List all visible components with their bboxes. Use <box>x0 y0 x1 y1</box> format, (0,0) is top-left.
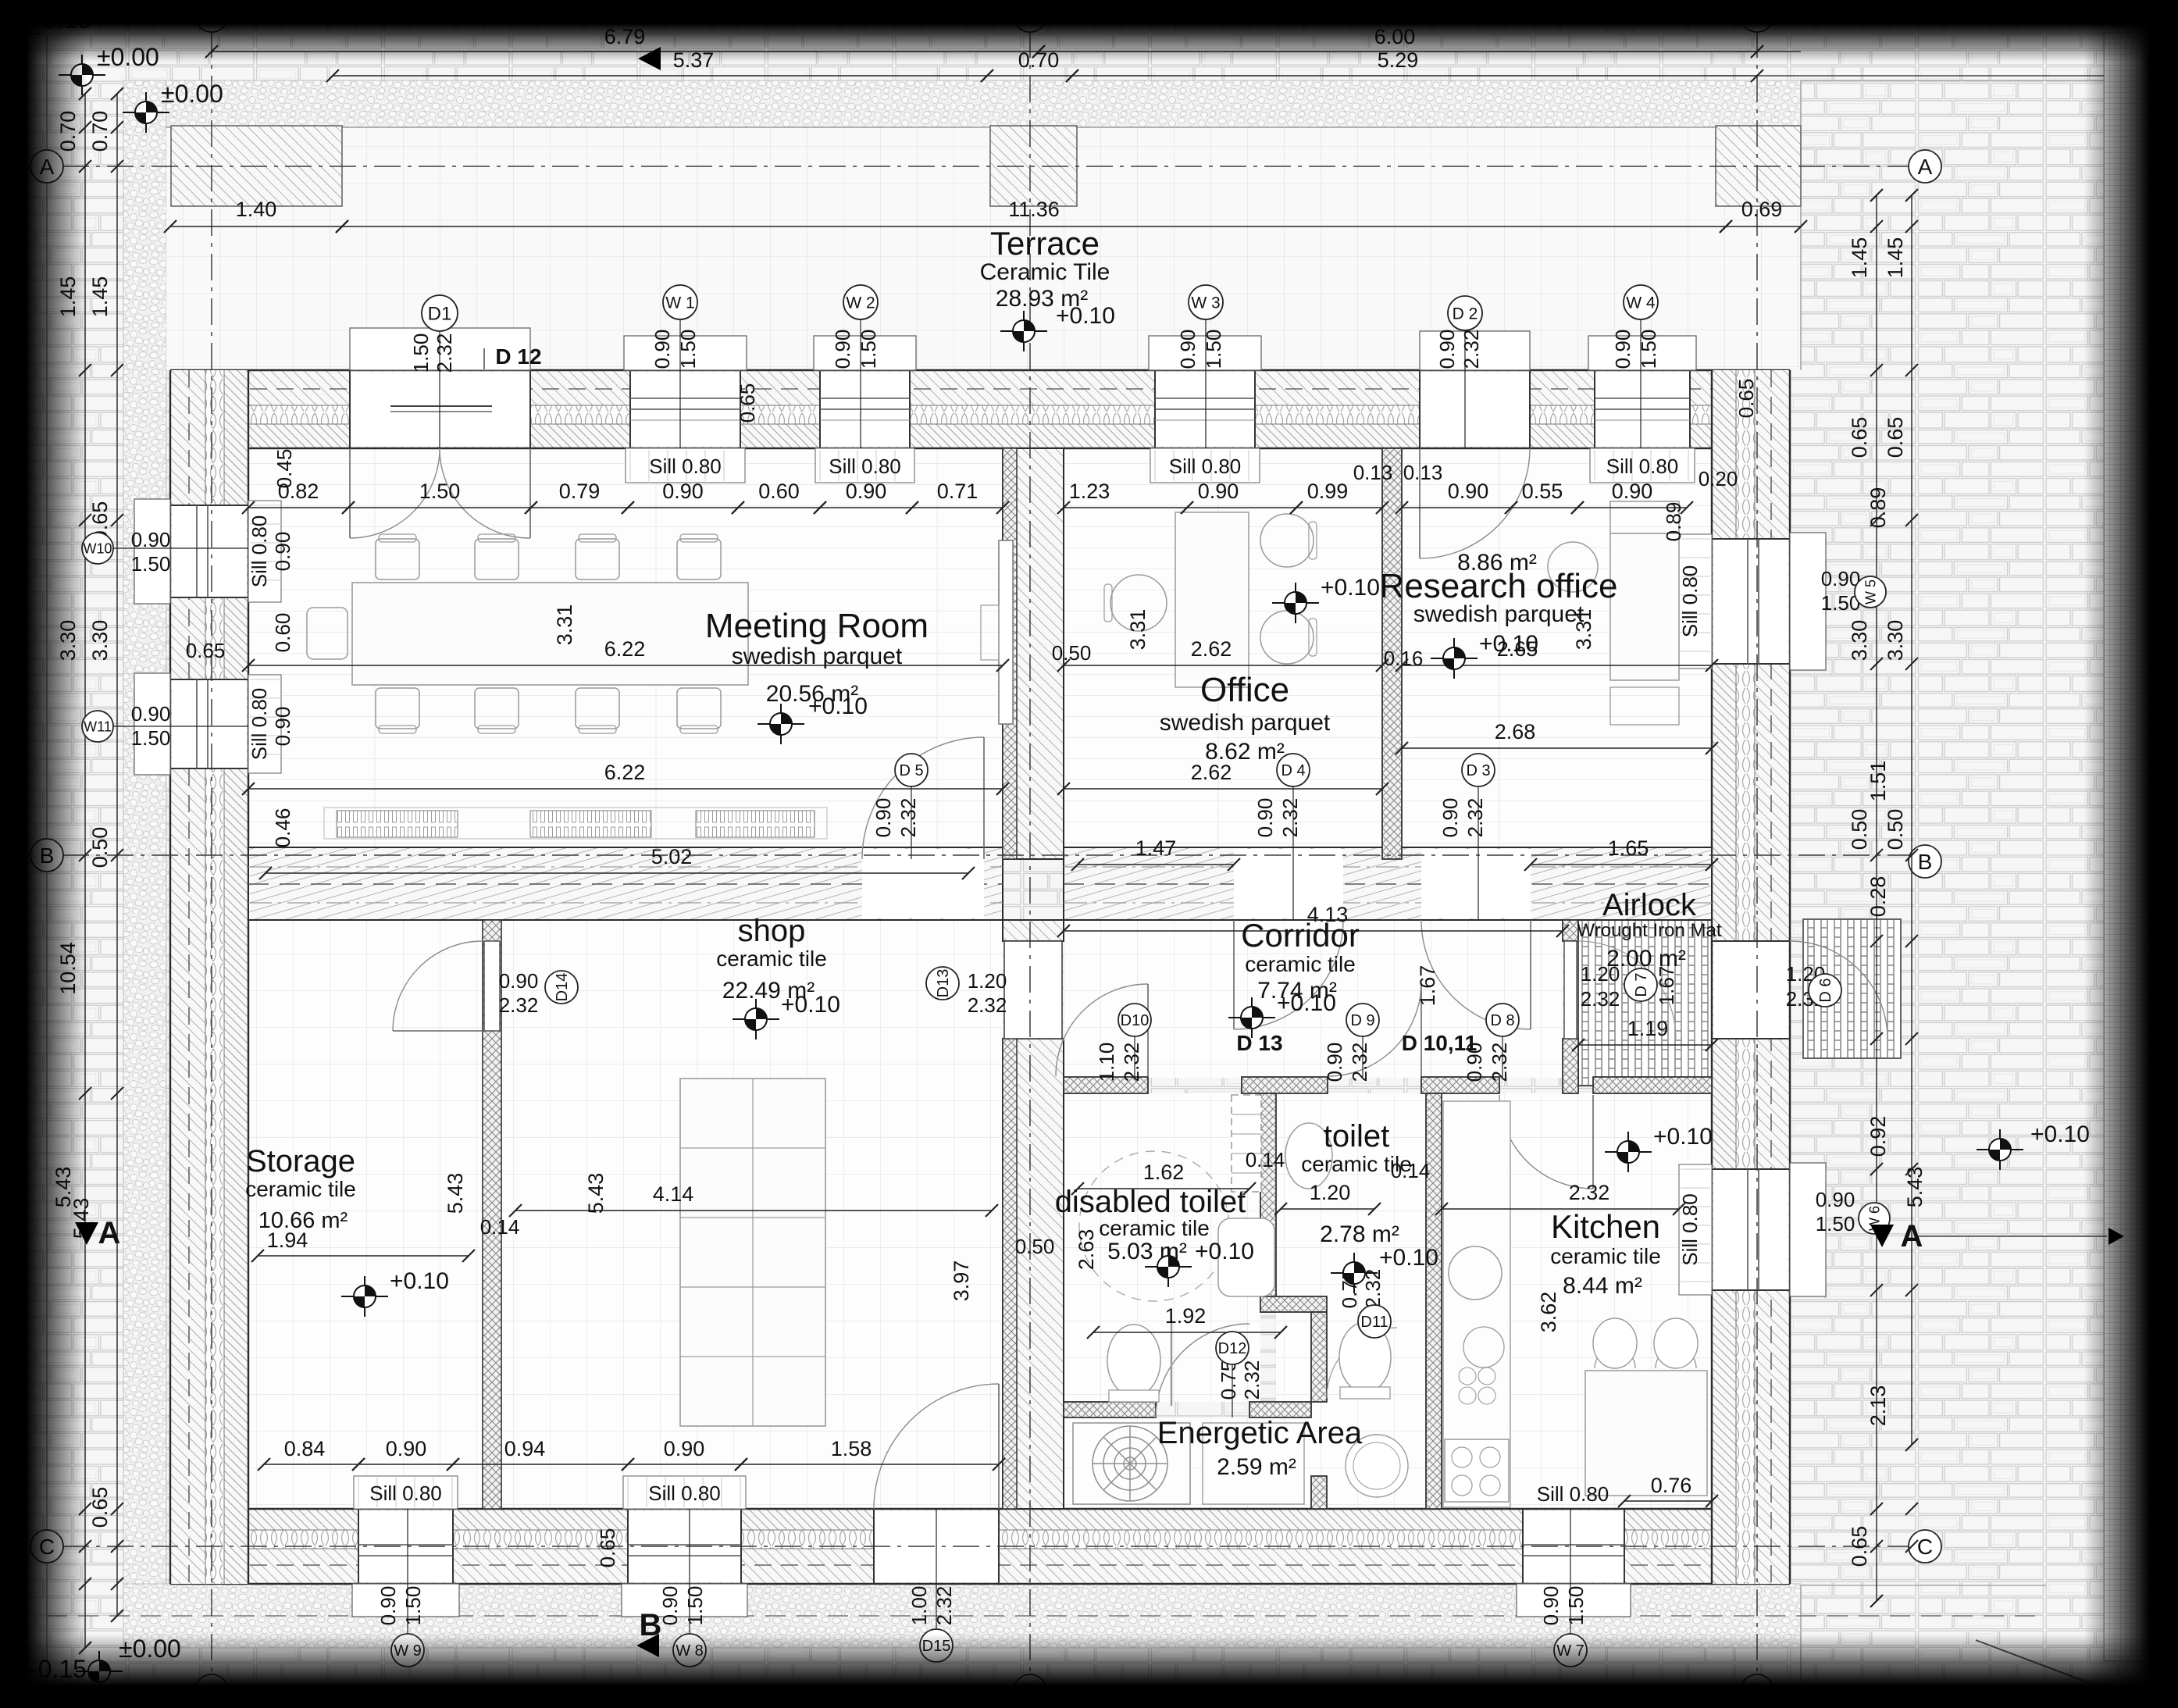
svg-text:Sill 0.80: Sill 0.80 <box>1537 1482 1609 1506</box>
D4 bubble <box>1292 785 1294 920</box>
svg-text:2.32: 2.32 <box>1488 1043 1511 1082</box>
storage/shop partition <box>483 920 501 1509</box>
svg-text:8.86 m²: 8.86 m² <box>1457 550 1537 576</box>
svg-text:0.70: 0.70 <box>88 111 112 152</box>
svg-text:Sill 0.80: Sill 0.80 <box>1678 565 1702 638</box>
svg-text:Sill 0.80: Sill 0.80 <box>829 455 901 478</box>
grid2 spine wall row1 <box>1003 448 1064 859</box>
svg-text:0.65: 0.65 <box>186 639 226 662</box>
kitchen 0.76 <box>1624 1500 1712 1502</box>
svg-text:5.43: 5.43 <box>1903 1167 1927 1208</box>
grid line B <box>62 854 1911 856</box>
svg-text:0.69: 0.69 <box>1741 198 1783 221</box>
terrace ceramic tile field <box>166 127 1801 370</box>
Research office floor <box>1402 448 1712 859</box>
svg-text:2.00 m²: 2.00 m² <box>1606 946 1686 972</box>
svg-text:0.90: 0.90 <box>1435 330 1459 369</box>
svg-text:1.50: 1.50 <box>676 330 700 369</box>
toilet WC <box>1339 1322 1391 1392</box>
svg-text:0.65: 0.65 <box>596 1528 619 1568</box>
svg-text:1.67: 1.67 <box>1655 966 1678 1006</box>
D7 opening corridor-airlock <box>1564 941 1577 1039</box>
svg-text:Sill 0.80: Sill 0.80 <box>1606 455 1679 478</box>
svg-text:Wrought Iron Mat: Wrought Iron Mat <box>1577 920 1722 941</box>
svg-text:2.59 m²: 2.59 m² <box>1217 1454 1296 1480</box>
door D3 arc <box>1421 849 1531 918</box>
svg-text:0.90: 0.90 <box>1611 330 1634 369</box>
svg-text:+0.10: +0.10 <box>2030 1121 2090 1147</box>
svg-text:2.32: 2.32 <box>1278 798 1302 838</box>
D14 opening storage-shop <box>484 941 500 1031</box>
toilet jog wall <box>1260 1296 1327 1312</box>
svg-text:8.62 m²: 8.62 m² <box>1205 739 1285 765</box>
vignette frame <box>0 0 2178 62</box>
svg-text:0.50: 0.50 <box>1015 1235 1055 1258</box>
svg-text:0.90: 0.90 <box>651 330 674 369</box>
svg-text:2.13: 2.13 <box>1866 1385 1890 1427</box>
svg-text:D13: D13 <box>935 969 952 998</box>
disabled toilet floor <box>1064 1093 1260 1402</box>
svg-text:0.55: 0.55 <box>1522 480 1563 503</box>
window W4 <box>1595 372 1690 447</box>
svg-text:D 2: D 2 <box>1453 305 1478 323</box>
D7 bubble <box>1624 968 1657 1001</box>
disabled toilet turning circle <box>1079 1151 1229 1301</box>
svg-text:0.60: 0.60 <box>271 613 294 653</box>
svg-text:0.50: 0.50 <box>1884 809 1907 850</box>
D5 bubble <box>911 785 912 859</box>
door D9 arc <box>1328 982 1421 1076</box>
grid line 3 <box>1756 31 1758 1675</box>
door D2 opening <box>1420 372 1530 447</box>
svg-text:2.32: 2.32 <box>433 333 456 373</box>
office desk <box>1175 512 1249 687</box>
divider wall band right <box>1064 847 1712 920</box>
svg-text:+0.10: +0.10 <box>390 1268 449 1294</box>
svg-text:0.90: 0.90 <box>1198 480 1239 503</box>
svg-text:0.89: 0.89 <box>1866 487 1890 529</box>
svg-text:0.13: 0.13 <box>1353 461 1393 484</box>
office chain top <box>1064 507 1187 508</box>
grid2 spine wall row2 lower <box>1003 1039 1064 1509</box>
svg-text:0.75: 0.75 <box>1217 1360 1240 1400</box>
kitchen stove <box>1445 1439 1509 1502</box>
svg-text:0.90: 0.90 <box>846 480 887 503</box>
svg-text:2.32: 2.32 <box>499 993 539 1017</box>
B section marker top <box>638 47 661 70</box>
office partition wall 0.16 <box>1382 448 1402 859</box>
svg-text:W 3: W 3 <box>1191 294 1220 312</box>
svg-text:3.31: 3.31 <box>1126 609 1150 651</box>
exterior wall top <box>170 370 1790 448</box>
svg-text:1.10: 1.10 <box>1095 1043 1118 1082</box>
svg-text:1.94: 1.94 <box>267 1228 308 1252</box>
grid line A <box>62 166 1911 167</box>
D13 dashed shelf corridor <box>1232 1095 1261 1192</box>
svg-text:1.50: 1.50 <box>1637 330 1660 369</box>
svg-text:+0.10: +0.10 <box>1379 1245 1438 1271</box>
door D7 arc <box>1578 941 1676 1039</box>
grid bubbles right <box>1909 150 1941 183</box>
toilet/kitchen partition <box>1426 1093 1442 1509</box>
svg-text:0.71: 0.71 <box>937 480 978 503</box>
meeting end chair <box>307 608 348 659</box>
svg-text:0.90: 0.90 <box>872 798 895 838</box>
window W5 research office <box>1713 539 1788 664</box>
svg-text:0.90: 0.90 <box>1448 480 1489 503</box>
svg-text:0.90: 0.90 <box>1821 567 1861 590</box>
svg-text:ceramic tile: ceramic tile <box>1301 1152 1412 1176</box>
svg-text:5.43: 5.43 <box>584 1173 608 1214</box>
exterior wall bottom <box>170 1509 1790 1584</box>
svg-text:0.13: 0.13 <box>1403 461 1443 484</box>
disabled toilet WC <box>1107 1325 1160 1396</box>
Energetic Area floor <box>1064 1417 1311 1509</box>
svg-text:3.97: 3.97 <box>950 1260 973 1302</box>
meeting chairs bottom <box>376 688 419 729</box>
svg-text:0.20: 0.20 <box>1699 467 1738 490</box>
svg-text:1.58: 1.58 <box>831 1437 872 1460</box>
svg-text:0.65: 0.65 <box>1734 379 1758 419</box>
svg-text:D11: D11 <box>1360 1314 1388 1331</box>
svg-text:1.50: 1.50 <box>419 480 461 503</box>
svg-text:2.68: 2.68 <box>1495 720 1536 743</box>
corridor bottom wall segments <box>1064 1077 1148 1093</box>
svg-text:Sill 0.80: Sill 0.80 <box>649 455 722 478</box>
presentation screen <box>999 540 1013 724</box>
disabled/toilet partition <box>1260 1093 1276 1312</box>
svg-text:0.90: 0.90 <box>1612 480 1653 503</box>
door D12 arc <box>1156 1324 1249 1417</box>
svg-text:Terrace: Terrace <box>990 225 1100 262</box>
svg-text:0.14: 0.14 <box>480 1215 520 1239</box>
svg-text:D 12: D 12 <box>495 344 541 369</box>
svg-text:1.50: 1.50 <box>857 330 880 369</box>
office chairs <box>1260 514 1314 567</box>
svg-text:0.65: 0.65 <box>736 383 759 423</box>
svg-text:1.20: 1.20 <box>968 969 1007 993</box>
Meeting Room floor <box>248 448 1003 859</box>
meeting room top chain <box>248 507 348 508</box>
door D8 arc <box>1499 1095 1593 1189</box>
svg-text:W11: W11 <box>84 719 112 734</box>
shop display tiles <box>680 1079 825 1426</box>
door D4 arc <box>1234 849 1343 918</box>
D6 bubble <box>1809 974 1841 1007</box>
kitchen table <box>1585 1371 1707 1496</box>
svg-text:1.62: 1.62 <box>1143 1161 1185 1184</box>
svg-text:8.44 m²: 8.44 m² <box>1563 1273 1642 1299</box>
svg-text:D 13: D 13 <box>1236 1031 1282 1055</box>
gravel strip bottom <box>123 1584 1801 1648</box>
svg-text:1.50: 1.50 <box>131 552 171 576</box>
svg-text:0.45: 0.45 <box>273 449 296 489</box>
svg-text:W10: W10 <box>83 540 112 556</box>
svg-text:disabled toilet: disabled toilet <box>1055 1185 1246 1219</box>
airlock left wall <box>1563 920 1578 941</box>
Kitchen floor <box>1442 1093 1712 1509</box>
svg-text:1.50: 1.50 <box>1202 330 1225 369</box>
svg-text:2.32: 2.32 <box>1120 1043 1143 1082</box>
window W3 <box>1155 372 1255 447</box>
kitchen chairs <box>1595 1348 1635 1368</box>
svg-text:3.30: 3.30 <box>1884 620 1907 661</box>
+0.10 marker outside right <box>1977 1129 2023 1170</box>
svg-text:1.45: 1.45 <box>1848 237 1871 279</box>
svg-text:3.62: 3.62 <box>1537 1292 1560 1333</box>
svg-text:1.50: 1.50 <box>683 1586 707 1626</box>
svg-text:2.32: 2.32 <box>1569 1181 1610 1204</box>
exterior wall left <box>170 370 248 1584</box>
grid bubbles bottom <box>195 1674 228 1707</box>
dim chain terrace <box>170 226 342 227</box>
svg-text:0.90: 0.90 <box>664 1437 705 1460</box>
svg-text:Energetic Area: Energetic Area <box>1157 1416 1363 1450</box>
D3 bubble <box>1478 785 1479 920</box>
svg-text:6.22: 6.22 <box>604 637 646 661</box>
door D11 arc <box>1327 1328 1397 1398</box>
grid bubbles top <box>195 0 228 32</box>
svg-text:Kitchen: Kitchen <box>1551 1208 1660 1245</box>
level +-0.00 markers top left <box>59 55 105 95</box>
svg-text:+0.10: +0.10 <box>1056 303 1115 329</box>
svg-text:0.90: 0.90 <box>1176 330 1200 369</box>
Office floor <box>1064 448 1382 859</box>
svg-text:0.90: 0.90 <box>658 1586 682 1626</box>
svg-text:W 5: W 5 <box>1863 579 1878 604</box>
grid line C <box>62 1546 1911 1547</box>
svg-text:D 8: D 8 <box>1490 1012 1514 1029</box>
window W1 <box>630 372 740 447</box>
research office desk <box>1610 501 1679 533</box>
svg-text:+0.10: +0.10 <box>1321 575 1380 601</box>
svg-text:Sill 0.80: Sill 0.80 <box>369 1482 442 1505</box>
svg-text:Sill 0.80: Sill 0.80 <box>248 515 271 588</box>
svg-text:0.90: 0.90 <box>131 702 171 726</box>
bottom bubbles <box>407 1509 408 1634</box>
svg-text:D 4: D 4 <box>1281 762 1305 779</box>
D2 bubble <box>1464 328 1466 448</box>
dim chain top level1 <box>212 51 1039 52</box>
svg-text:1.45: 1.45 <box>88 276 112 318</box>
svg-text:A: A <box>98 1216 121 1250</box>
door D15 opening <box>874 1510 999 1582</box>
svg-text:1.47: 1.47 <box>1135 836 1177 860</box>
Corridor floor <box>1064 920 1563 1078</box>
svg-text:1.50: 1.50 <box>131 726 171 750</box>
svg-text:+0.10: +0.10 <box>1277 990 1336 1016</box>
door D6 opening right wall <box>1713 941 1788 1039</box>
svg-text:1.65: 1.65 <box>1608 836 1649 860</box>
svg-text:0.60: 0.60 <box>758 480 800 503</box>
svg-text:2.32: 2.32 <box>897 798 920 838</box>
dim chain storage/shop bottom <box>264 1464 358 1465</box>
svg-text:0.90: 0.90 <box>1816 1188 1855 1211</box>
svg-text:0.90: 0.90 <box>1438 798 1462 838</box>
energetic area top wall <box>1064 1402 1156 1417</box>
meeting table <box>352 583 748 685</box>
svg-text:1.19: 1.19 <box>1627 1017 1669 1040</box>
svg-text:1.45: 1.45 <box>1884 237 1907 279</box>
level markers bottom left <box>0 1665 39 1706</box>
divider wall layer lines <box>248 883 1003 885</box>
svg-text:0.90: 0.90 <box>386 1437 427 1460</box>
svg-text:5.43: 5.43 <box>444 1173 467 1214</box>
svg-text:5.02: 5.02 <box>651 845 693 868</box>
window W7 <box>1523 1510 1624 1582</box>
svg-text:0.92: 0.92 <box>1866 1116 1890 1157</box>
svg-text:0.90: 0.90 <box>271 532 294 572</box>
svg-text:Meeting Room: Meeting Room <box>705 607 929 645</box>
right chains <box>1876 195 1877 1601</box>
svg-text:0.65: 0.65 <box>1884 417 1907 458</box>
svg-text:1.50: 1.50 <box>409 333 433 373</box>
fence band right edge <box>2104 33 2144 1661</box>
bookshelf meeting room <box>337 811 458 837</box>
D9 bubble <box>1362 1036 1363 1077</box>
door D14 arc <box>393 941 483 1031</box>
window W11 <box>172 679 247 768</box>
svg-text:D 7: D 7 <box>1633 972 1650 997</box>
disabled toilet dims <box>1078 1188 1249 1189</box>
svg-text:2.32: 2.32 <box>932 1586 956 1626</box>
svg-text:2.78 m²: 2.78 m² <box>1320 1221 1399 1247</box>
window W8 <box>628 1510 741 1582</box>
shop floor <box>501 920 1003 1509</box>
D8 bubble <box>1502 1036 1503 1077</box>
site dashed boundary bottom <box>47 1615 2038 1617</box>
svg-text:2.62: 2.62 <box>1191 637 1232 661</box>
svg-text:Airlock: Airlock <box>1602 888 1697 922</box>
Airlock floor wrought iron mat <box>1578 920 1712 1086</box>
svg-text:1.00: 1.00 <box>907 1586 931 1626</box>
svg-text:3.30: 3.30 <box>88 620 112 661</box>
svg-text:Ceramic Tile: Ceramic Tile <box>980 259 1110 285</box>
terrace hatched pier grid2 <box>990 126 1077 206</box>
svg-text:D 6: D 6 <box>1817 978 1834 1002</box>
svg-text:shop: shop <box>738 914 806 948</box>
door D10 arc <box>1056 984 1148 1076</box>
window W6 kitchen <box>1713 1169 1788 1290</box>
svg-text:3.31: 3.31 <box>553 604 576 646</box>
svg-text:Storage: Storage <box>246 1144 355 1178</box>
window W2 <box>820 372 910 447</box>
svg-text:D10: D10 <box>1121 1012 1150 1029</box>
svg-text:D14: D14 <box>554 973 571 1002</box>
svg-text:0.84: 0.84 <box>284 1437 326 1460</box>
svg-text:1.40: 1.40 <box>236 198 277 221</box>
svg-text:3.30: 3.30 <box>1848 620 1871 661</box>
svg-text:B: B <box>1918 850 1933 874</box>
svg-text:0.50: 0.50 <box>88 827 112 868</box>
svg-text:ceramic tile: ceramic tile <box>1550 1244 1661 1268</box>
svg-text:2.32: 2.32 <box>1460 330 1483 369</box>
svg-text:D 10,11: D 10,11 <box>1402 1031 1478 1055</box>
svg-text:2.32: 2.32 <box>1463 798 1487 838</box>
door D5 arc <box>862 849 984 918</box>
svg-text:0.46: 0.46 <box>271 808 294 848</box>
svg-text:0.90: 0.90 <box>1539 1586 1563 1626</box>
svg-text:+0.10: +0.10 <box>1653 1124 1713 1150</box>
svg-text:0.65: 0.65 <box>1848 1526 1871 1567</box>
svg-text:swedish parquet: swedish parquet <box>732 644 903 669</box>
D13 opening shop-corridor <box>1004 941 1062 1039</box>
grid2 spine wall row2 upper <box>1003 920 1064 941</box>
D12 bubble <box>1232 1363 1233 1417</box>
svg-text:1.50: 1.50 <box>1564 1586 1588 1626</box>
svg-text:Sill 0.80: Sill 0.80 <box>1169 455 1242 478</box>
svg-text:0.90: 0.90 <box>1323 1043 1346 1082</box>
energetic area fan <box>1073 1423 1190 1504</box>
D11 bubble <box>1358 1305 1391 1338</box>
svg-text:Office: Office <box>1200 671 1289 709</box>
corridor dims <box>1064 930 1563 932</box>
svg-text:2.32: 2.32 <box>968 993 1007 1017</box>
D14 bubble <box>545 971 578 1004</box>
svg-text:Sill 0.80: Sill 0.80 <box>1678 1193 1702 1266</box>
svg-text:0.65: 0.65 <box>1848 417 1871 458</box>
divider wall row1/row2 band left <box>248 847 1003 920</box>
Storage floor <box>248 920 483 1509</box>
svg-text:0.94: 0.94 <box>504 1437 546 1460</box>
svg-text:+0.10: +0.10 <box>781 992 840 1018</box>
disabled toilet rail <box>1171 1320 1173 1406</box>
D6 exterior mat <box>1803 919 1901 1058</box>
svg-text:0.90: 0.90 <box>376 1586 400 1626</box>
D1 bubble <box>439 328 440 448</box>
svg-text:W 4: W 4 <box>1626 294 1656 312</box>
svg-text:1.20: 1.20 <box>1310 1181 1351 1204</box>
svg-text:0.16: 0.16 <box>1384 647 1424 670</box>
svg-text:2.63: 2.63 <box>1075 1229 1098 1271</box>
svg-text:Corridor: Corridor <box>1241 917 1360 954</box>
window W10 <box>172 505 247 597</box>
svg-text:ceramic tile: ceramic tile <box>1245 952 1356 976</box>
kitchen counter <box>1443 1101 1510 1507</box>
svg-text:A: A <box>1918 155 1933 179</box>
door D1 double opening <box>350 372 530 447</box>
svg-text:D 3: D 3 <box>1466 762 1490 779</box>
svg-text:0.90: 0.90 <box>831 330 854 369</box>
svg-text:ceramic tile: ceramic tile <box>245 1177 356 1201</box>
svg-text:0.90: 0.90 <box>271 707 294 747</box>
svg-text:0.76: 0.76 <box>1651 1474 1692 1497</box>
left chains <box>84 94 86 1648</box>
toilet sink <box>1285 1123 1332 1189</box>
svg-text:0.50: 0.50 <box>1848 809 1871 850</box>
svg-text:±0.00: ±0.00 <box>161 80 223 108</box>
svg-text:Sill 0.80: Sill 0.80 <box>648 1482 721 1505</box>
D13 bubble <box>926 967 959 1000</box>
svg-text:4.14: 4.14 <box>653 1182 694 1206</box>
svg-text:0.90: 0.90 <box>1253 798 1277 838</box>
svg-text:1.23: 1.23 <box>1069 480 1110 503</box>
terrace hatched pier grid1 <box>171 126 342 206</box>
level -0.15 top left <box>0 13 40 54</box>
svg-text:0.79: 0.79 <box>559 480 601 503</box>
svg-text:11.36: 11.36 <box>1008 198 1060 221</box>
svg-text:W 2: W 2 <box>846 294 875 312</box>
meeting 6.22 <box>248 665 1003 666</box>
grid line 2 <box>1029 31 1031 1675</box>
D10 bubble <box>1134 1036 1135 1077</box>
svg-text:ceramic tile: ceramic tile <box>1099 1216 1210 1240</box>
svg-text:0.99: 0.99 <box>1307 480 1349 503</box>
W bubbles top <box>679 317 681 448</box>
energetic equipment <box>1203 1423 1304 1504</box>
window W9 <box>358 1510 453 1582</box>
grid line 1 <box>211 31 212 1675</box>
